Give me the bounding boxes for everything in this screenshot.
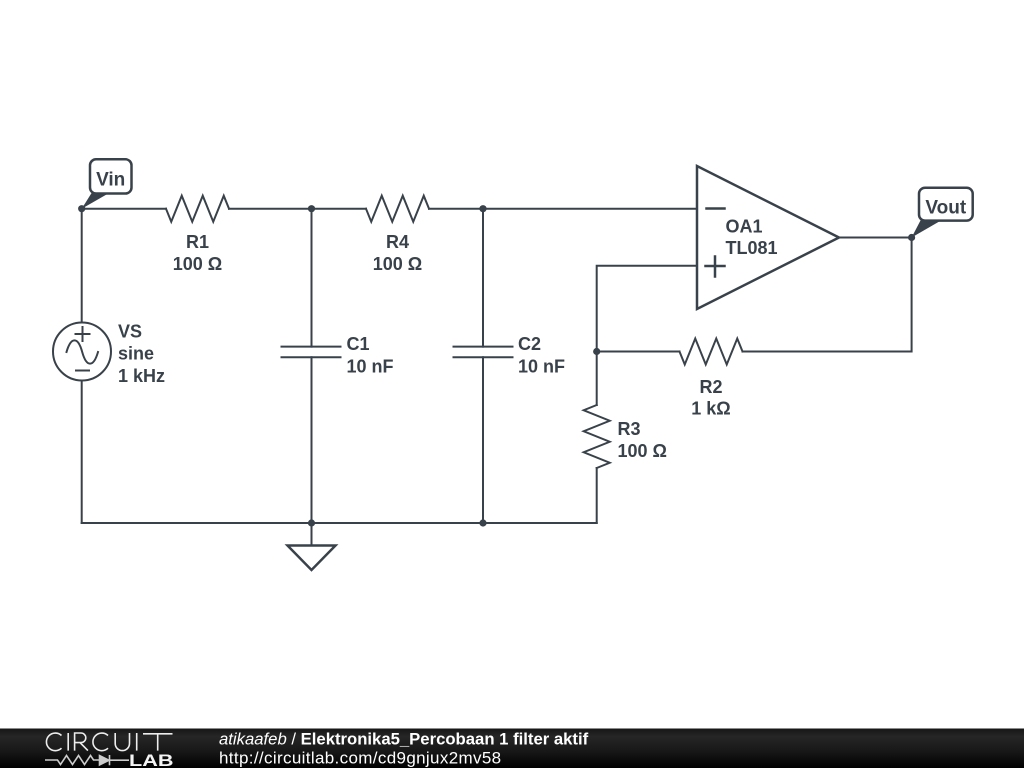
wire C1 top lead [311, 209, 313, 347]
wire op-amp output [839, 237, 912, 239]
capacitor C2 [454, 347, 513, 358]
svg-text:TL081: TL081 [726, 238, 778, 258]
wire R3 bottom lead [596, 468, 598, 523]
svg-text:atikaafeb / Elektronika5_Perco: atikaafeb / Elektronika5_Percobaan 1 fil… [219, 730, 589, 749]
svg-text:C2: C2 [518, 334, 541, 354]
capacitor C1 [282, 347, 341, 358]
wire R4 to op-amp minus input [429, 208, 697, 210]
ground [288, 523, 336, 570]
logo resistor-diode squiggle [45, 755, 129, 765]
svg-text:R4: R4 [386, 232, 409, 252]
junction node C2 bottom [479, 519, 486, 526]
wire R3 top lead [596, 352, 598, 406]
junction node at Vin [78, 205, 85, 212]
svg-text:OA1: OA1 [726, 217, 763, 237]
svg-text:VS: VS [118, 322, 142, 342]
wire plus input to node A [597, 266, 697, 352]
svg-text:100 Ω: 100 Ω [373, 254, 422, 274]
wire node A to R2 [597, 351, 680, 353]
wire C2 bottom lead [482, 357, 484, 523]
svg-text:sine: sine [118, 344, 154, 364]
svg-text:C1: C1 [347, 334, 370, 354]
wire VS top lead [81, 209, 83, 323]
svg-text:R1: R1 [186, 232, 209, 252]
svg-text:http://circuitlab.com/cd9gnjux: http://circuitlab.com/cd9gnjux2mv58 [219, 749, 502, 768]
svg-text:LAB: LAB [129, 752, 174, 768]
junction node R1/R4/C1 [308, 205, 315, 212]
junction node A R2/R3/plus [593, 348, 600, 355]
wire bottom rail [82, 522, 597, 524]
voltage source VS [53, 323, 111, 381]
svg-text:10 nF: 10 nF [518, 357, 565, 377]
svg-text:R2: R2 [699, 377, 722, 397]
svg-text:Vin: Vin [96, 170, 125, 191]
resistor R1 [166, 196, 229, 222]
svg-text:100 Ω: 100 Ω [173, 254, 222, 274]
svg-text:1 kΩ: 1 kΩ [691, 399, 730, 419]
net tag Vin [82, 159, 132, 208]
svg-text:100 Ω: 100 Ω [618, 441, 667, 461]
resistor R3 [584, 405, 610, 468]
resistor R4 [366, 196, 429, 222]
net tag Vout [912, 188, 973, 238]
wire R2 to feedback corner [743, 238, 912, 352]
logo CIRCUIT wordmark [46, 733, 172, 751]
junction node R4/C2 [479, 205, 486, 212]
op-amp OA1 [697, 166, 839, 309]
svg-text:Vout: Vout [925, 198, 966, 219]
junction node at Vout [908, 234, 915, 241]
svg-text:10 nF: 10 nF [347, 357, 394, 377]
svg-text:1 kHz: 1 kHz [118, 366, 165, 386]
wire R1 to R4 [229, 208, 366, 210]
resistor R2 [680, 339, 743, 365]
junction node C1/ground [308, 519, 315, 526]
wire top rail Vin to R1 [82, 208, 166, 210]
svg-text:R3: R3 [618, 419, 641, 439]
wire C1 bottom lead [311, 357, 313, 523]
wire VS bottom lead [81, 381, 83, 524]
wire C2 top lead [482, 209, 484, 347]
